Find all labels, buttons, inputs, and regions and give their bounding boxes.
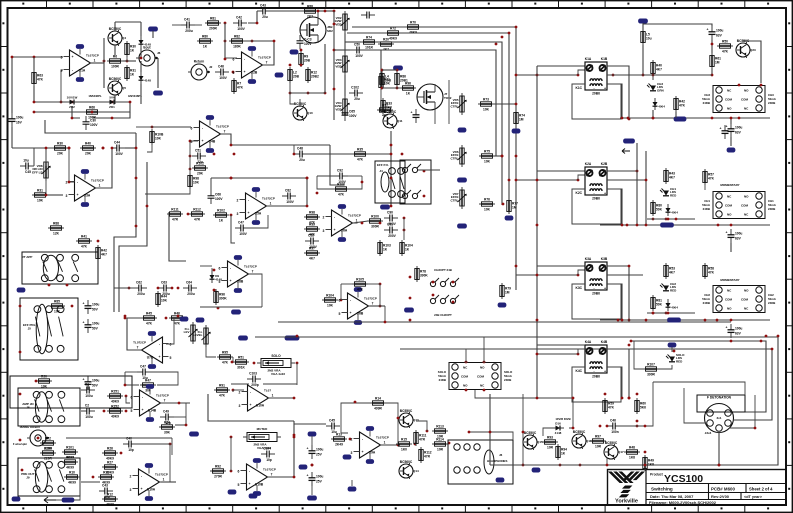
svg-text:C1: C1 [85,382,89,386]
svg-text:R112: R112 [193,208,201,212]
svg-text:300K: 300K [219,297,227,301]
svg-text:J9: J9 [26,476,30,480]
svg-text:TL072CP: TL072CP [348,214,361,218]
svg-text:24DB: 24DB [768,301,775,305]
svg-text:GN5346PL: GN5346PL [128,94,142,98]
svg-text:TL072CP: TL072CP [156,394,169,398]
svg-text:6: 6 [233,58,235,62]
svg-text:+: + [726,231,728,235]
svg-text:Return: Return [194,60,204,64]
svg-text:+: + [229,279,231,283]
svg-text:100V: 100V [355,54,363,58]
svg-text:R111: R111 [171,208,179,212]
svg-text:VER: VER [335,22,342,26]
svg-text:+: + [243,70,245,74]
svg-text:C103: C103 [249,371,257,375]
svg-text:47K: 47K [222,361,229,365]
svg-text:R100: R100 [371,215,379,219]
svg-text:C45: C45 [329,418,335,422]
svg-text:24DB: 24DB [703,101,710,105]
svg-text:R93: R93 [547,436,553,440]
svg-text:R41: R41 [81,235,87,239]
svg-text:+: + [76,193,78,197]
svg-text:2: 2 [323,216,325,220]
svg-text:Filename: M600-2V00sch.SCH/200: Filename: M600-2V00sch.SCH/2002 [649,500,717,505]
svg-text:R109: R109 [44,447,52,451]
svg-text:4148: 4148 [144,43,151,47]
svg-text:100V: 100V [239,232,247,236]
svg-text:TL072CP: TL072CP [244,265,257,269]
svg-text:R95: R95 [222,351,228,355]
svg-text:R82: R82 [234,35,240,39]
svg-text:C48: C48 [297,146,303,150]
svg-text:Rev:2V00: Rev:2V00 [711,494,730,499]
svg-text:3: 3 [237,212,239,216]
svg-text:63V: 63V [735,237,742,241]
svg-text:R102: R102 [217,209,225,213]
svg-text:20B6: 20B6 [592,92,600,96]
svg-text:C44: C44 [114,140,120,144]
svg-text:COM: COM [461,375,469,379]
svg-text:F DETONATION: F DETONATION [707,396,732,400]
svg-text:R97: R97 [595,435,601,439]
svg-text:COM: COM [477,375,485,379]
svg-text:100V: 100V [90,123,98,127]
svg-text:47K: 47K [338,193,345,197]
svg-text:YCS100: YCS100 [664,473,703,485]
svg-text:R85: R85 [54,300,60,304]
svg-text:TL072CP: TL072CP [133,341,146,345]
svg-text:NO: NO [727,213,732,217]
svg-text:20B6: 20B6 [592,375,600,379]
svg-text:C47: C47 [140,364,146,368]
svg-text:1N5346PL: 1N5346PL [88,94,102,98]
svg-text:20B: 20B [304,59,311,63]
svg-text:C43: C43 [102,483,108,487]
svg-text:1: 1 [384,441,386,445]
svg-text:1M: 1M [505,291,510,295]
svg-text:+: + [604,370,606,374]
svg-text:Q11: Q11 [397,119,403,123]
svg-text:R113: R113 [436,425,444,429]
svg-text:100V: 100V [215,197,223,201]
svg-text:J6: J6 [157,51,161,55]
svg-text:47K: 47K [219,394,226,398]
svg-text:24DB: 24DB [703,207,710,211]
svg-text:Q17: Q17 [618,450,624,454]
svg-text:47K: 47K [357,288,364,292]
svg-text:+: + [604,87,606,91]
svg-text:C58: C58 [308,233,314,237]
svg-text:R104: R104 [326,294,334,298]
svg-text:Sheet 2 of 4: Sheet 2 of 4 [749,487,773,492]
svg-text:R35: R35 [357,148,363,152]
svg-text:R114: R114 [436,438,444,442]
svg-text:VER: VER [335,64,342,68]
svg-text:20B6: 20B6 [592,197,600,201]
svg-text:C91: C91 [387,222,393,226]
svg-text:200u: 200u [137,292,144,296]
svg-text:20K: 20K [85,152,92,156]
svg-text:NO: NO [744,195,749,199]
svg-text:+: + [247,211,249,215]
svg-text:COM: COM [725,204,733,208]
svg-text:100u: 100u [85,415,92,419]
svg-text:100V: 100V [237,27,245,31]
svg-text:50V: 50V [92,327,99,331]
svg-text:100n: 100n [611,430,618,434]
svg-text:270R: 270R [214,475,222,479]
svg-text:RED: RED [676,359,683,363]
svg-text:R88: R88 [53,222,59,226]
svg-text:PCB# M600: PCB# M600 [711,487,735,492]
svg-text:7: 7 [164,399,166,403]
svg-text:TL072CP: TL072CP [155,473,168,477]
svg-text:GRN: GRN [657,88,664,92]
svg-text:ZD1: ZD1 [109,105,115,109]
svg-text:50K: 50K [656,208,663,212]
svg-text:MUTED: MUTED [257,427,268,431]
svg-text:J2: J2 [209,65,213,69]
svg-text:LEVEL: LEVEL [193,333,203,337]
svg-text:3: 3 [323,229,325,233]
svg-text:10u: 10u [646,37,652,41]
svg-text:R92: R92 [215,465,221,469]
svg-text:1K: 1K [406,92,411,96]
svg-text:MOMENTARY: MOMENTARY [720,278,739,282]
svg-text:R80: R80 [202,35,208,39]
svg-text:K3C: K3C [575,286,582,290]
svg-text:CTRL: CTRL [451,104,459,108]
svg-text:1K: 1K [219,219,224,223]
svg-text:20K: 20K [57,152,64,156]
svg-text:R24: R24 [164,421,170,425]
svg-text:30K: 30K [164,431,171,435]
svg-text:4004: 4004 [658,105,665,109]
svg-text:TL072CP: TL072CP [262,197,275,201]
svg-text:BC550C: BC550C [605,441,618,445]
svg-text:390K: 390K [420,274,428,278]
svg-text:10R: 10R [547,446,554,450]
svg-text:TL072CP: TL072CP [258,56,271,60]
svg-text:2: 2 [351,438,353,442]
svg-text:Q4: Q4 [122,36,126,40]
svg-text:+: + [707,28,709,32]
svg-text:K4A: K4A [585,340,592,344]
svg-text:220R: 220R [44,457,52,461]
svg-text:7: 7 [372,302,374,306]
svg-text:R72: R72 [45,437,51,441]
svg-text:1K: 1K [130,49,135,53]
svg-text:1M: 1M [519,118,524,122]
svg-text:R81: R81 [210,17,216,21]
svg-text:7: 7 [252,270,254,274]
svg-text:R48: R48 [629,446,635,450]
svg-text:1: 1 [272,394,274,398]
svg-text:EFF LE: EFF LE [32,170,42,174]
svg-text:C62: C62 [136,280,142,284]
svg-text:24B CH3UPT: 24B CH3UPT [434,313,452,317]
svg-text:16AWG OR/BUT: 16AWG OR/BUT [19,425,41,429]
svg-text:25V: 25V [316,453,323,457]
svg-text:R99: R99 [309,223,315,227]
svg-text:3: 3 [66,194,68,198]
svg-text:200u: 200u [185,29,192,33]
svg-text:R102: R102 [66,456,74,460]
svg-text:10K: 10K [484,160,491,164]
svg-text:R27: R27 [107,461,113,465]
svg-text:NO: NO [744,89,749,93]
svg-text:4K7: 4K7 [309,257,315,261]
svg-text:5: 5 [238,483,240,487]
svg-text:+: + [361,450,363,454]
svg-text:+: + [726,326,728,330]
svg-text:C49: C49 [163,409,169,413]
svg-text:49K9: 49K9 [106,471,114,475]
svg-text:1K8: 1K8 [648,463,654,467]
svg-text:K4C: K4C [575,369,582,373]
svg-text:SD2: SD2 [327,29,333,33]
svg-text:7: 7 [137,346,139,350]
svg-text:TL072CP: TL072CP [364,297,377,301]
svg-text:C45: C45 [25,170,31,174]
svg-text:C102: C102 [351,85,359,89]
svg-text:R50: R50 [722,40,728,44]
svg-text:100u: 100u [92,322,99,326]
svg-text:BC560C: BC560C [109,77,122,81]
svg-text:100V: 100V [286,200,294,204]
svg-text:TL072CP: TL072CP [86,54,99,58]
svg-text:R252: R252 [111,405,119,409]
svg-text:25V: 25V [316,480,323,484]
svg-text:6: 6 [339,299,341,303]
svg-text:10V/R DIVB: 10V/R DIVB [555,417,570,421]
svg-text:100u: 100u [92,379,99,383]
svg-text:R251: R251 [111,390,119,394]
svg-text:2: 2 [237,199,239,203]
svg-text:50K: 50K [656,303,663,307]
svg-text:10K: 10K [483,108,490,112]
svg-text:20K: 20K [197,172,204,176]
svg-text:F wire/spkr: F wire/spkr [13,442,27,446]
svg-text:100R: 100R [111,65,119,69]
svg-text:K2B: K2B [601,162,608,166]
svg-text:+: + [7,115,9,119]
svg-text:+: + [248,482,250,486]
svg-text:U14B: U14B [148,409,157,413]
svg-text:4K7: 4K7 [101,253,107,257]
svg-text:3x1: 3x1 [716,416,721,420]
svg-text:R6: R6 [113,55,117,59]
svg-text:4004: 4004 [671,211,678,215]
svg-text:47K: 47K [174,322,181,326]
svg-text:4K99: 4K99 [66,466,74,470]
svg-text:10K: 10K [327,304,334,308]
svg-text:16V: 16V [16,121,23,125]
svg-text:+: + [71,55,73,59]
svg-text:EFF P.U.: EFF P.U. [377,163,389,167]
svg-text:2: 2 [239,391,241,395]
svg-text:R106: R106 [337,183,345,187]
svg-text:TL07: TL07 [264,389,271,393]
svg-text:+: + [604,287,606,291]
svg-text:CH3UPT 24B: CH3UPT 24B [434,268,452,272]
svg-text:+: + [604,192,606,196]
svg-text:+: + [83,321,85,325]
svg-text:5: 5 [191,140,193,144]
svg-text:R102: R102 [196,162,204,166]
svg-text:CTRL: CTRL [451,156,459,160]
svg-text:K1B: K1B [601,57,608,61]
svg-text:Product: Product [650,473,664,477]
svg-text:Switching: Switching [651,487,673,492]
svg-text:49K9: 49K9 [111,415,119,419]
svg-text:R70: R70 [410,21,416,25]
svg-text:20B: 20B [293,75,300,79]
svg-text:R14: R14 [375,397,381,401]
svg-text:-: - [593,370,594,374]
svg-text:R40: R40 [85,142,91,146]
svg-text:300R: 300R [371,225,379,229]
svg-text:1K: 1K [203,45,208,49]
svg-text:24DB: 24DB [439,378,446,382]
svg-text:R107: R107 [647,363,655,367]
svg-text:63V: 63V [735,332,742,336]
svg-text:R66: R66 [89,106,95,110]
svg-text:1K: 1K [130,73,135,77]
svg-text:U10B: U10B [255,483,264,487]
svg-text:5: 5 [233,71,235,75]
svg-text:RED: RED [670,288,677,292]
svg-text:R96: R96 [405,82,411,86]
svg-text:4004: 4004 [671,306,678,310]
svg-text:4K99: 4K99 [68,481,76,485]
svg-text:10K: 10K [161,299,168,303]
svg-text:C82: C82 [285,188,291,192]
svg-text:5V6: 5V6 [109,96,115,100]
svg-text:2: 2 [66,181,68,185]
svg-text:3: 3 [351,451,353,455]
svg-text:BC550C: BC550C [400,409,413,413]
svg-text:R90: R90 [41,375,47,379]
svg-text:COM: COM [725,98,733,102]
svg-text:-: - [593,87,594,91]
svg-text:100V: 100V [304,42,312,46]
svg-text:47R: 47R [419,438,426,442]
svg-text:200R: 200R [209,27,217,31]
svg-text:5: 5 [170,356,172,360]
svg-text:R97: R97 [309,247,315,251]
svg-text:47R: 47R [194,218,201,222]
svg-text:VER: VER [335,107,342,111]
svg-text:COM: COM [741,98,749,102]
svg-text:Date: Thu Mar 08, 2007: Date: Thu Mar 08, 2007 [650,494,694,499]
svg-text:R91: R91 [219,384,225,388]
svg-text:301K: 301K [237,366,245,370]
svg-text:J5: J5 [28,326,32,330]
svg-text:R15: R15 [401,438,407,442]
svg-text:C104: C104 [263,446,271,450]
svg-text:Q14: Q14 [413,469,419,473]
svg-text:4K7: 4K7 [669,176,675,180]
svg-text:D16: D16 [555,422,561,426]
svg-text:Q5: Q5 [122,86,126,90]
svg-text:10V/1W: 10V/1W [67,96,78,100]
svg-text:-: - [593,192,594,196]
svg-text:101R: 101R [365,46,373,50]
svg-text:J6: J6 [499,453,503,457]
svg-text:100u: 100u [735,126,742,130]
svg-text:R75: R75 [484,150,490,154]
svg-text:47K: 47K [37,78,44,82]
svg-text:R76: R76 [484,198,490,202]
svg-text:C-C3: C-C3 [304,38,312,42]
svg-text:1M: 1M [512,206,517,210]
svg-text:5K6: 5K6 [640,406,646,410]
svg-text:TL072CP: TL072CP [216,125,229,129]
svg-text:C51: C51 [195,148,201,152]
svg-text:49K9: 49K9 [111,400,119,404]
svg-text:4148: 4148 [144,79,151,83]
svg-text:1K0: 1K0 [401,448,407,452]
svg-text:+: + [141,408,143,412]
svg-text:C92: C92 [337,168,343,172]
svg-text:20u: 20u [299,158,305,162]
svg-text:2K49: 2K49 [335,443,343,447]
svg-text:CTRL: CTRL [451,198,459,202]
svg-text:TL072CP: TL072CP [376,436,389,440]
svg-text:BC550C: BC550C [573,430,586,434]
svg-text:R12: R12 [107,493,113,497]
svg-text:50V: 50V [92,384,99,388]
svg-text:1: 1 [163,478,165,482]
svg-text:47K: 47K [708,271,715,275]
svg-text:C46: C46 [610,418,616,422]
svg-text:200u: 200u [187,292,194,296]
svg-text:J3x4: J3x4 [705,431,712,435]
svg-text:100u: 100u [716,29,723,33]
svg-text:63V: 63V [716,34,723,38]
svg-text:C46: C46 [218,64,224,68]
svg-text:1M: 1M [715,61,720,65]
svg-text:C63: C63 [161,280,167,284]
svg-text:4148: 4148 [555,431,562,435]
svg-text:10K: 10K [54,310,61,314]
svg-text:100u: 100u [316,448,323,452]
svg-text:20B2: 20B2 [311,75,319,79]
svg-text:390R: 390R [647,373,655,377]
svg-text:200V: 200V [388,234,396,238]
svg-text:20u: 20u [354,97,360,101]
svg-text:6: 6 [219,267,221,271]
svg-text:10R: 10R [437,448,444,452]
svg-text:47R: 47R [424,455,431,459]
svg-text:6: 6 [170,343,172,347]
svg-text:Q23: Q23 [750,48,756,52]
svg-text:VGA 4x23: VGA 4x23 [271,372,285,376]
svg-text:50V: 50V [92,308,99,312]
svg-text:20u: 20u [262,15,268,19]
svg-text:10K: 10K [484,208,491,212]
svg-text:K3B: K3B [601,257,608,261]
svg-text:C2: C2 [85,403,89,407]
svg-text:<dT year>: <dT year> [744,495,763,499]
svg-text:BC560C: BC560C [400,460,413,464]
svg-text:47K: 47K [722,50,729,54]
svg-text:NO: NO [463,384,468,388]
svg-text:4K99: 4K99 [106,503,114,507]
svg-text:7: 7 [224,130,226,134]
